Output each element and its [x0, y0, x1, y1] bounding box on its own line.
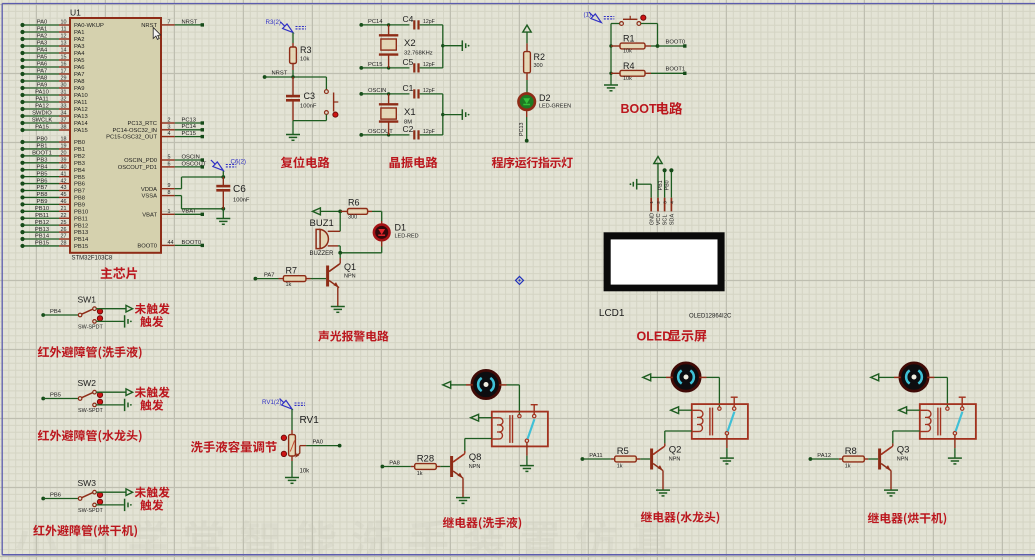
- power arrow untriggered: [126, 305, 133, 312]
- net PB6: [41, 497, 45, 501]
- svg-text:PB4: PB4: [50, 309, 62, 315]
- svg-text:VDDA: VDDA: [141, 187, 157, 193]
- svg-text:29: 29: [61, 76, 67, 82]
- svg-text:VBAT: VBAT: [182, 209, 197, 215]
- svg-text:30: 30: [61, 83, 67, 89]
- svg-text:PA12: PA12: [817, 453, 831, 459]
- svg-text:10: 10: [61, 20, 67, 26]
- svg-text:C4: C4: [403, 14, 414, 24]
- svg-text:C6(2): C6(2): [231, 159, 246, 166]
- node R6 left: [338, 210, 342, 214]
- svg-text:PA10: PA10: [74, 93, 88, 99]
- svg-text:PA12: PA12: [35, 104, 49, 110]
- resistor R5: [611, 458, 615, 460]
- label 触发: [140, 400, 151, 411]
- svg-text:PB7: PB7: [37, 185, 48, 191]
- svg-text:BOOT0: BOOT0: [182, 240, 202, 246]
- net PA7: [254, 277, 258, 281]
- svg-text:20: 20: [61, 151, 67, 157]
- label 红外避障管(水龙头): [38, 430, 49, 441]
- svg-text:OSCOUT_PD1: OSCOUT_PD1: [118, 165, 157, 171]
- motor right pin: [499, 384, 506, 386]
- svg-text:Q2: Q2: [669, 445, 682, 456]
- buzzer BUZ1: [316, 229, 320, 248]
- svg-text:10k: 10k: [623, 76, 632, 82]
- svg-text:PA3: PA3: [37, 41, 48, 47]
- U1 left pin 26 PB13: [23, 231, 60, 233]
- transistor Q8 NPN: [450, 456, 453, 477]
- power arrow coil: [471, 414, 479, 421]
- svg-text:PB2: PB2: [74, 154, 85, 160]
- svg-text:PA11: PA11: [589, 453, 602, 459]
- svg-text:PB15: PB15: [35, 241, 49, 247]
- label main chip 主芯片: [101, 267, 113, 279]
- svg-text:41: 41: [61, 171, 67, 177]
- svg-text:VSSA: VSSA: [142, 194, 158, 200]
- svg-text:PB13: PB13: [35, 227, 49, 233]
- svg-text:9: 9: [168, 183, 171, 189]
- relay contacts: [518, 414, 521, 417]
- svg-text:NPN: NPN: [344, 274, 356, 280]
- svg-text:PB10: PB10: [35, 206, 49, 212]
- U1 left pin 17 PA7: [23, 73, 60, 75]
- svg-text:PA8: PA8: [37, 76, 48, 82]
- net PA0: [300, 445, 306, 447]
- motor right pin: [927, 376, 934, 378]
- svg-text:300: 300: [348, 215, 357, 221]
- svg-text:OSCIN_PD0: OSCIN_PD0: [124, 158, 157, 164]
- capacitor C4: [413, 20, 415, 29]
- wire motor to relay: [707, 376, 720, 378]
- svg-text:PA4: PA4: [74, 51, 85, 57]
- U1 left pin 14 PA4: [23, 52, 60, 54]
- wire upper throw: [96, 491, 126, 493]
- microcontroller U1 STM32F103C8 body: [70, 18, 161, 253]
- svg-text:SWDIO: SWDIO: [32, 111, 52, 117]
- svg-text:PB13: PB13: [74, 230, 88, 236]
- ground relay contact: [948, 457, 962, 459]
- label 红外避障管(洗手液): [38, 346, 49, 357]
- svg-text:12pF: 12pF: [423, 88, 435, 94]
- ground triggered: [124, 315, 126, 327]
- U1 left pin 37 SWCLK: [23, 122, 60, 124]
- svg-text:VBAT: VBAT: [142, 212, 157, 218]
- svg-text:OSCOUT: OSCOUT: [182, 161, 207, 167]
- U1 left pin 40 PB4: [23, 169, 60, 171]
- relay 继电器(烘干机) box: [920, 404, 976, 439]
- svg-text:BUZ1: BUZ1: [310, 218, 334, 229]
- node BOOT0: [656, 44, 660, 48]
- svg-text:32: 32: [61, 97, 67, 103]
- U1 left pin 38 PA15: [23, 129, 60, 131]
- svg-text:43: 43: [61, 185, 67, 191]
- U1 left pin 41 PB5: [23, 176, 60, 178]
- ground Q8: [456, 497, 470, 499]
- motor left pin: [894, 376, 901, 378]
- wire RV1 to ground: [291, 461, 293, 478]
- wire bottom rail alarm: [340, 252, 382, 254]
- svg-text:NRST: NRST: [141, 23, 157, 29]
- U1 left pin 21 PB10: [23, 210, 60, 212]
- relay contacts: [946, 407, 949, 410]
- svg-text:D1: D1: [395, 223, 407, 233]
- svg-text:R2: R2: [534, 52, 546, 62]
- power arrow alarm: [313, 208, 321, 215]
- transistor Q1 NPN: [326, 266, 329, 287]
- svg-text:PA2: PA2: [74, 37, 85, 43]
- svg-text:PA8: PA8: [74, 79, 85, 85]
- svg-text:U1: U1: [70, 8, 81, 18]
- power arrow motor: [643, 374, 651, 381]
- label 触发: [140, 316, 151, 327]
- wire rail to Q1 collector: [339, 253, 341, 258]
- svg-text:OLED: OLED: [637, 330, 672, 344]
- node C6 bottom: [221, 207, 225, 211]
- svg-text:PB7: PB7: [74, 189, 85, 195]
- net PB4: [41, 313, 45, 317]
- wire emitter to ground: [462, 478, 464, 497]
- svg-text:R4: R4: [623, 61, 635, 71]
- svg-text:13: 13: [61, 41, 67, 47]
- svg-text:SCL: SCL: [663, 214, 669, 225]
- ground under C6: [216, 218, 230, 220]
- net OSCOUT wire: [359, 133, 363, 137]
- svg-text:42: 42: [61, 178, 67, 184]
- svg-text:40: 40: [61, 164, 67, 170]
- U1 left pin 46 PB9: [23, 203, 60, 205]
- U1 left pin 34 SWDIO: [23, 115, 60, 117]
- svg-text:X2: X2: [404, 38, 416, 49]
- svg-text:OSCIN: OSCIN: [182, 154, 200, 160]
- svg-text:28: 28: [61, 241, 67, 247]
- svg-text:SW2: SW2: [78, 378, 97, 388]
- motor right pin: [699, 376, 706, 378]
- ground Q3: [884, 489, 898, 491]
- U1 left pin 33 PA12: [23, 108, 60, 110]
- U1 left pin 15 PA5: [23, 59, 60, 61]
- U1 left pin 11 PA1: [23, 31, 60, 33]
- svg-text:100nF: 100nF: [300, 104, 317, 110]
- ground Q2: [656, 489, 670, 491]
- svg-text:PB5: PB5: [74, 175, 85, 181]
- label 洗手液容量调节: [191, 441, 203, 453]
- net PA8: [381, 465, 385, 469]
- svg-text:44: 44: [168, 240, 174, 246]
- svg-text:PA5: PA5: [37, 55, 48, 61]
- wire contact to ground: [526, 443, 528, 456]
- svg-text:PC15: PC15: [182, 131, 197, 137]
- svg-text:PC13: PC13: [182, 117, 197, 123]
- probe R3(2): [283, 24, 293, 33]
- svg-text:PB1: PB1: [37, 144, 48, 150]
- wire R6 to D1: [368, 210, 372, 212]
- ground reset: [286, 134, 300, 136]
- svg-text:SDA: SDA: [670, 214, 676, 226]
- node SCL pin top: [663, 168, 667, 172]
- svg-text:10k: 10k: [300, 469, 311, 475]
- resistor R8: [839, 458, 843, 460]
- svg-text:OSCIN: OSCIN: [368, 88, 386, 94]
- svg-text:NRST: NRST: [182, 19, 198, 25]
- svg-text:BUZZER: BUZZER: [310, 251, 335, 257]
- motor left pin: [466, 384, 473, 386]
- switch SW2 SW-SPDT: [78, 397, 82, 401]
- svg-text:R6: R6: [348, 198, 360, 208]
- svg-text:PC14: PC14: [182, 124, 197, 130]
- svg-text:PA6: PA6: [37, 62, 48, 68]
- svg-text:PB4: PB4: [37, 164, 49, 170]
- svg-text:PB6: PB6: [50, 493, 61, 499]
- svg-text:PA15: PA15: [35, 125, 49, 131]
- svg-text:BOOT1: BOOT1: [666, 67, 686, 73]
- svg-text:PA6: PA6: [74, 65, 85, 71]
- svg-text:R1: R1: [623, 34, 635, 44]
- power arrow coil: [671, 407, 679, 414]
- svg-text:PB0: PB0: [665, 180, 671, 190]
- svg-text:PA3: PA3: [74, 44, 85, 50]
- wire upper throw: [96, 308, 126, 310]
- svg-text:25: 25: [61, 220, 67, 226]
- svg-text:300: 300: [534, 63, 543, 69]
- svg-text:46: 46: [61, 199, 67, 205]
- svg-text:PC13_RTC: PC13_RTC: [127, 121, 157, 127]
- svg-text:X1: X1: [404, 107, 416, 118]
- svg-text:14: 14: [61, 48, 67, 54]
- svg-text:PA13: PA13: [74, 114, 88, 120]
- ground relay contact: [520, 465, 534, 467]
- U1 left pin 39 PB3: [23, 162, 60, 164]
- svg-text:26: 26: [61, 227, 67, 233]
- label crystal circuit 晶振电路: [390, 157, 400, 168]
- svg-text:22: 22: [61, 213, 67, 219]
- transistor Q3 NPN: [878, 449, 881, 470]
- node C6 top: [221, 175, 225, 179]
- svg-text:34: 34: [61, 111, 67, 117]
- relay 继电器(洗手液) box: [492, 412, 548, 447]
- relay blade: [728, 412, 735, 432]
- svg-text:19: 19: [61, 144, 67, 150]
- svg-text:PC14-OSC32_IN: PC14-OSC32_IN: [113, 128, 157, 134]
- svg-text:BOOT1: BOOT1: [32, 151, 52, 157]
- svg-text:RV1(2): RV1(2): [262, 399, 282, 406]
- svg-text:PA9: PA9: [74, 86, 85, 92]
- U1 left pin 30 PA9: [23, 87, 60, 89]
- svg-text:12pF: 12pF: [423, 62, 435, 68]
- svg-text:PB15: PB15: [74, 244, 88, 250]
- svg-text:PB0: PB0: [37, 137, 48, 143]
- svg-text:(1): (1): [584, 12, 592, 19]
- crystal X2: [388, 25, 390, 35]
- wire motor to relay: [507, 384, 520, 386]
- label 继电器(洗手液): [443, 517, 454, 528]
- wire emitter to ground: [662, 471, 664, 490]
- wire buzzer bottom: [338, 245, 340, 247]
- net PC14 wire: [359, 23, 363, 27]
- wire button right rail: [641, 23, 658, 25]
- U1 left pin 29 PA8: [23, 80, 60, 82]
- resistor R1: [609, 44, 612, 47]
- svg-text:Q1: Q1: [344, 262, 356, 272]
- ground Q1: [331, 306, 345, 308]
- svg-text:PB3: PB3: [37, 157, 48, 163]
- svg-text:C6: C6: [233, 184, 246, 195]
- wire Q1 emitter to ground: [337, 288, 339, 307]
- svg-text:37: 37: [61, 118, 67, 124]
- net PB5: [41, 397, 45, 401]
- svg-text:PC15-OSC32_OUT: PC15-OSC32_OUT: [106, 135, 157, 141]
- motor 继电器(水龙头): [672, 363, 700, 391]
- svg-text:31: 31: [61, 90, 67, 96]
- svg-text:1k: 1k: [286, 282, 292, 288]
- U1 left pin 32 PA11: [23, 101, 60, 103]
- U1 left pin 28 PB15: [23, 245, 60, 247]
- svg-text:RV1: RV1: [300, 415, 320, 426]
- svg-text:PB5: PB5: [37, 171, 48, 177]
- wire motor to relay: [935, 376, 948, 378]
- svg-text:PC15: PC15: [368, 62, 383, 68]
- label 触发: [140, 500, 151, 511]
- svg-text:PA12: PA12: [74, 107, 88, 113]
- svg-text:21: 21: [61, 206, 67, 212]
- ground BOOT: [604, 84, 618, 86]
- resistor R6: [340, 210, 347, 212]
- label run indicator 程序运行指示灯: [492, 157, 503, 168]
- svg-text:SW-SPDT: SW-SPDT: [78, 325, 103, 331]
- ground RV1: [285, 477, 299, 479]
- svg-text:Q3: Q3: [897, 445, 910, 456]
- svg-text:NRST: NRST: [272, 71, 288, 77]
- svg-text:PA0: PA0: [37, 20, 48, 26]
- svg-text:R3: R3: [300, 45, 312, 55]
- svg-text:5: 5: [168, 155, 171, 161]
- svg-text:R7: R7: [286, 266, 298, 276]
- svg-text:PB6: PB6: [37, 178, 48, 184]
- svg-text:PB0: PB0: [74, 140, 85, 146]
- U1 left pin 12 PA2: [23, 38, 60, 40]
- label alarm circuit 声光报警电路: [318, 330, 329, 341]
- svg-text:18: 18: [61, 137, 67, 143]
- wire upper throw: [96, 391, 126, 393]
- svg-text:PB11: PB11: [74, 216, 88, 222]
- motor 继电器(烘干机): [900, 363, 928, 391]
- power arrow indicator: [523, 25, 531, 32]
- svg-text:1: 1: [649, 201, 654, 204]
- svg-text:11: 11: [61, 27, 67, 33]
- ground crystal: [461, 40, 463, 51]
- LED D2 LED-GREEN: [519, 94, 535, 110]
- svg-text:1k: 1k: [617, 464, 623, 470]
- svg-text:SW-SPDT: SW-SPDT: [78, 408, 103, 414]
- probe RV1(2): [282, 400, 292, 409]
- wire rail to ground: [292, 121, 294, 135]
- svg-text:27: 27: [61, 234, 67, 240]
- U1 left pin 45 PB8: [23, 196, 60, 198]
- wire button left rail: [611, 23, 620, 25]
- relay blade: [528, 419, 535, 439]
- U1 left pin 31 PA10: [23, 94, 60, 96]
- svg-text:1: 1: [168, 209, 171, 215]
- node SDA pin top: [669, 168, 673, 172]
- svg-text:1k: 1k: [417, 471, 423, 477]
- crystal X1: [388, 94, 390, 104]
- svg-text:PA4: PA4: [37, 48, 48, 54]
- svg-text:C1: C1: [403, 83, 414, 93]
- resistor R4: [609, 72, 612, 75]
- svg-text:10k: 10k: [300, 57, 309, 63]
- power arrow untriggered: [126, 389, 133, 396]
- svg-text:4: 4: [168, 131, 171, 137]
- svg-text:GND: GND: [649, 213, 655, 225]
- svg-text:PB9: PB9: [37, 199, 48, 205]
- wire BOOT1: [651, 72, 684, 74]
- svg-text:Q8: Q8: [469, 452, 482, 463]
- label 未触发: [135, 487, 146, 498]
- svg-text:PB1: PB1: [74, 147, 85, 153]
- U1 left pin 16 PA6: [23, 66, 60, 68]
- U1 left pin 25 PB12: [23, 224, 60, 226]
- svg-text:33: 33: [61, 104, 67, 110]
- U1 left pin 27 PB14: [23, 238, 60, 240]
- svg-text:NPN: NPN: [469, 464, 481, 470]
- U1 left pin 18 PB0: [23, 141, 60, 143]
- svg-text:PA11: PA11: [35, 97, 48, 103]
- svg-text:12pF: 12pF: [423, 19, 435, 25]
- svg-text:PA1: PA1: [74, 30, 85, 36]
- ground relay contact: [720, 457, 734, 459]
- ground crystal: [461, 109, 463, 120]
- svg-text:PA10: PA10: [35, 90, 49, 96]
- svg-text:PB9: PB9: [74, 202, 85, 208]
- resistor R3: [292, 43, 294, 47]
- label 未触发: [135, 387, 146, 398]
- wire crystal right rail: [442, 94, 444, 135]
- svg-text:D2: D2: [539, 93, 551, 103]
- svg-text:45: 45: [61, 192, 67, 198]
- svg-text:LCD1: LCD1: [599, 308, 625, 319]
- svg-text:PB6: PB6: [74, 182, 85, 188]
- power arrow OLED: [654, 157, 662, 164]
- U1 left pin 22 PB11: [23, 217, 60, 219]
- svg-text:2: 2: [168, 118, 171, 124]
- svg-text:PA0-WKUP: PA0-WKUP: [74, 23, 104, 29]
- capacitor C3: [292, 77, 294, 96]
- svg-text:C3: C3: [304, 91, 316, 101]
- svg-text:PB5: PB5: [50, 393, 61, 399]
- svg-text:LED-RED: LED-RED: [395, 234, 419, 240]
- svg-text:3: 3: [663, 201, 668, 204]
- resistor R28: [411, 466, 415, 468]
- wire C3 bottom rail: [293, 120, 326, 122]
- svg-text:R3(2): R3(2): [266, 19, 281, 26]
- svg-text:PC14: PC14: [368, 19, 383, 25]
- svg-text:PA2: PA2: [37, 34, 48, 40]
- wire C6 to ground: [222, 209, 224, 219]
- svg-text:PA1: PA1: [37, 27, 48, 33]
- svg-text:PA14: PA14: [74, 121, 89, 127]
- svg-text:PB14: PB14: [74, 237, 89, 243]
- motor left pin: [666, 376, 673, 378]
- svg-text:PA15: PA15: [74, 128, 88, 134]
- U1 left pin 43 PB7: [23, 190, 60, 192]
- U1 left pin 20 BOOT1: [23, 155, 60, 157]
- wire probe to R3: [292, 33, 294, 44]
- wire coil to collector: [893, 430, 920, 432]
- svg-text:10k: 10k: [623, 49, 632, 55]
- capacitor C6: [222, 177, 224, 186]
- net PC15 wire: [359, 66, 363, 70]
- svg-text:R28: R28: [417, 454, 434, 465]
- svg-text:8M: 8M: [404, 120, 412, 126]
